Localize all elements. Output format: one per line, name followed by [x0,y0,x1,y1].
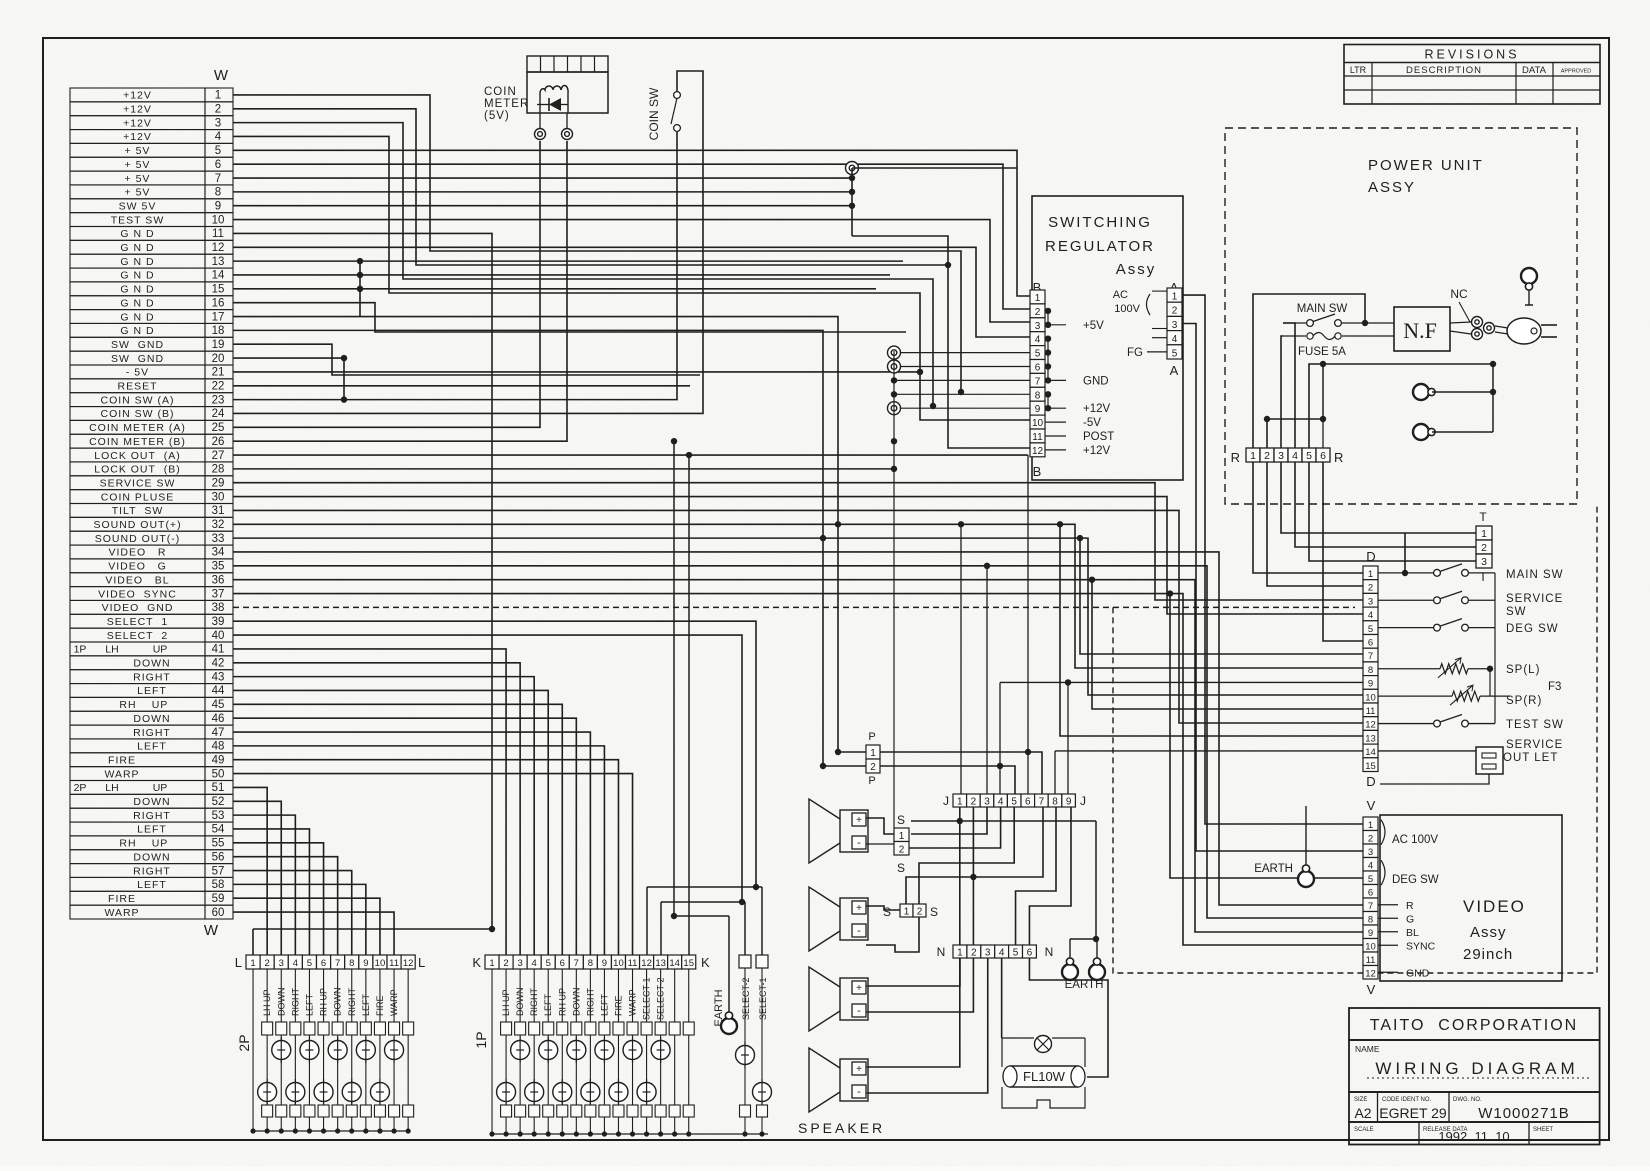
svg-text:1: 1 [957,948,963,959]
svg-text:W1000271B: W1000271B [1478,1105,1570,1122]
svg-text:36: 36 [212,574,225,586]
svg-text:20: 20 [212,353,225,365]
svg-text:1: 1 [1035,293,1041,304]
svg-text:GND: GND [1083,375,1109,387]
svg-text:6: 6 [321,958,326,969]
svg-text:D: D [1366,774,1375,789]
svg-text:2: 2 [899,845,905,856]
svg-text:EGRET 29: EGRET 29 [1379,1105,1447,1121]
svg-text:-: - [857,837,861,849]
svg-text:1: 1 [1172,292,1178,303]
svg-text:WARP: WARP [104,907,139,919]
svg-text:FIRE: FIRE [108,893,136,905]
svg-text:2: 2 [917,907,923,918]
svg-text:REGULATOR: REGULATOR [1045,238,1155,255]
svg-text:1: 1 [1368,820,1373,831]
svg-text:W: W [204,922,219,939]
svg-text:4: 4 [998,797,1004,808]
svg-text:LEFT: LEFT [304,993,314,1016]
svg-text:11: 11 [212,228,224,240]
svg-text:100V: 100V [1114,303,1140,315]
svg-text:2: 2 [503,958,508,969]
svg-text:6: 6 [1025,797,1031,808]
svg-text:46: 46 [212,713,225,725]
svg-text:9: 9 [1368,928,1373,939]
svg-text:2: 2 [870,762,876,773]
svg-text:+ 5V: + 5V [125,145,151,157]
svg-text:1: 1 [870,748,876,759]
svg-text:-: - [857,1005,861,1017]
svg-text:RESET: RESET [117,381,157,393]
svg-text:LEFT: LEFT [137,879,167,891]
svg-text:RH UP: RH UP [557,988,567,1016]
svg-text:R: R [1334,450,1343,465]
svg-text:5: 5 [307,958,312,969]
svg-text:POST: POST [1083,431,1114,443]
svg-text:58: 58 [212,879,225,891]
svg-text:12: 12 [1365,968,1376,979]
svg-text:3: 3 [215,117,221,129]
svg-text:41: 41 [212,644,225,656]
svg-text:8: 8 [588,958,593,969]
svg-text:DOWN: DOWN [133,796,170,808]
svg-text:2: 2 [1172,306,1178,317]
svg-text:1: 1 [899,831,905,842]
svg-text:10: 10 [212,214,225,226]
svg-text:DWG. NO.: DWG. NO. [1453,1097,1482,1103]
svg-text:K: K [472,955,481,970]
svg-text:FUSE 5A: FUSE 5A [1298,346,1346,358]
svg-text:N.F: N.F [1403,318,1437,343]
svg-text:5: 5 [1368,874,1373,885]
svg-text:L: L [418,955,425,970]
svg-text:B: B [1033,464,1042,479]
svg-text:TAITO CORPORATION: TAITO CORPORATION [1370,1017,1578,1034]
svg-text:A2: A2 [1354,1105,1371,1121]
svg-text:G N D: G N D [120,297,154,309]
svg-text:11: 11 [1366,706,1376,717]
svg-text:LEFT: LEFT [137,685,167,697]
svg-text:WARP: WARP [389,989,399,1016]
svg-text:50: 50 [212,768,225,780]
svg-text:RIGHT: RIGHT [133,671,171,683]
svg-text:FIRE: FIRE [613,995,623,1016]
svg-text:COIN SW (A): COIN SW (A) [101,394,175,406]
svg-text:8: 8 [1368,665,1373,676]
svg-text:3: 3 [1368,847,1373,858]
svg-text:SERVICE: SERVICE [1506,593,1563,605]
svg-text:SERVICE SW: SERVICE SW [100,477,176,489]
svg-text:V: V [1367,798,1376,813]
svg-text:19: 19 [212,339,225,351]
svg-text:55: 55 [212,838,225,850]
svg-text:6: 6 [1320,450,1326,462]
svg-text:COIN: COIN [484,86,517,98]
svg-text:G N D: G N D [120,311,154,323]
svg-text:14: 14 [1365,747,1376,758]
svg-text:S: S [930,905,938,919]
svg-text:3: 3 [279,958,284,969]
svg-text:DOWN: DOWN [133,713,170,725]
svg-text:AC 100V: AC 100V [1392,834,1438,846]
svg-text:6: 6 [1027,948,1033,959]
svg-text:27: 27 [212,450,225,462]
svg-text:3: 3 [517,958,522,969]
svg-text:OUT LET: OUT LET [1503,752,1558,764]
svg-text:+12V: +12V [123,131,152,143]
svg-text:4: 4 [293,958,298,969]
svg-text:1: 1 [215,90,221,102]
svg-text:DOWN: DOWN [276,988,286,1017]
svg-text:F3: F3 [1548,681,1561,693]
svg-text:GND: GND [1406,967,1430,979]
svg-text:VIDEO SYNC: VIDEO SYNC [98,588,177,600]
svg-text:1: 1 [489,958,494,969]
svg-text:10: 10 [613,958,624,969]
svg-text:12: 12 [641,958,652,969]
svg-text:14: 14 [212,270,225,282]
svg-text:RIGHT: RIGHT [133,727,171,739]
svg-text:10: 10 [1032,418,1044,429]
svg-text:37: 37 [212,588,225,600]
svg-text:LEFT: LEFT [137,741,167,753]
svg-text:26: 26 [212,436,225,448]
svg-text:J: J [1080,794,1086,808]
svg-text:5: 5 [546,958,551,969]
svg-text:5: 5 [1172,348,1178,359]
svg-text:7: 7 [1039,797,1045,808]
svg-text:7: 7 [1035,376,1041,387]
svg-text:SELECT 1: SELECT 1 [107,616,169,628]
svg-text:15: 15 [1365,761,1376,772]
svg-text:(5V): (5V) [484,110,510,122]
svg-text:LEFT: LEFT [361,993,371,1016]
svg-text:WARP: WARP [628,989,638,1016]
svg-text:48: 48 [212,741,225,753]
svg-text:G N D: G N D [120,325,154,337]
svg-text:8: 8 [349,958,354,969]
svg-text:6: 6 [1368,638,1373,649]
svg-text:SOUND OUT(+): SOUND OUT(+) [93,519,181,531]
svg-text:SW 5V: SW 5V [119,200,157,212]
svg-text:G N D: G N D [120,242,154,254]
svg-text:49: 49 [212,754,225,766]
svg-text:34: 34 [212,547,225,559]
svg-text:+12V: +12V [123,117,152,129]
svg-text:VIDEO G: VIDEO G [108,561,167,573]
svg-text:28: 28 [212,464,225,476]
svg-text:13: 13 [212,256,225,268]
svg-text:+ 5V: + 5V [125,187,151,199]
svg-text:+12V: +12V [1083,403,1111,415]
svg-text:G N D: G N D [120,284,154,296]
svg-text:54: 54 [212,824,225,836]
svg-text:RH: RH [119,699,136,711]
svg-text:DEG SW: DEG SW [1392,874,1439,886]
svg-text:SHEET: SHEET [1533,1127,1553,1133]
svg-text:52: 52 [212,796,225,808]
svg-text:10: 10 [375,958,386,969]
svg-text:A: A [1170,363,1179,378]
svg-text:5: 5 [1013,948,1019,959]
svg-text:8: 8 [1035,390,1041,401]
svg-text:N: N [937,945,946,959]
svg-text:3: 3 [1368,596,1373,607]
svg-text:LOCK OUT (A): LOCK OUT (A) [94,450,181,462]
svg-text:K: K [701,955,710,970]
svg-text:10: 10 [1365,941,1376,952]
svg-text:FG: FG [1127,347,1143,359]
svg-text:1: 1 [957,797,963,808]
svg-text:VIDEO GND: VIDEO GND [102,602,174,614]
svg-text:Assy: Assy [1470,924,1507,941]
svg-text:LH UP: LH UP [262,989,272,1016]
svg-text:FIRE: FIRE [108,754,136,766]
svg-text:R: R [1231,450,1240,465]
svg-text:S: S [897,813,905,827]
svg-text:-: - [857,925,861,937]
svg-text:21: 21 [212,367,225,379]
svg-text:LTR: LTR [1350,65,1367,75]
svg-text:-5V: -5V [1083,417,1101,429]
svg-text:32: 32 [212,519,225,531]
svg-text:UP: UP [152,699,169,711]
svg-text:13: 13 [1365,733,1376,744]
svg-text:2: 2 [971,948,977,959]
svg-text:4: 4 [999,948,1005,959]
svg-text:8: 8 [215,187,221,199]
svg-text:2: 2 [1264,450,1270,462]
svg-text:TILT SW: TILT SW [112,505,164,517]
svg-text:3: 3 [985,948,991,959]
svg-text:3: 3 [1278,450,1284,462]
svg-text:WIRING DIAGRAM: WIRING DIAGRAM [1375,1059,1578,1078]
svg-text:+: + [856,1064,862,1075]
svg-text:RIGHT: RIGHT [585,988,595,1017]
svg-text:3: 3 [1172,320,1178,331]
svg-text:DOWN: DOWN [571,988,581,1017]
svg-text:7: 7 [1368,901,1373,912]
svg-text:MAIN SW: MAIN SW [1297,303,1348,315]
svg-text:11: 11 [1366,955,1376,966]
svg-text:G N D: G N D [120,256,154,268]
svg-text:1: 1 [1481,528,1487,540]
svg-text:13: 13 [655,958,666,969]
svg-text:BL: BL [1406,927,1419,939]
svg-text:7: 7 [574,958,579,969]
svg-text:2P: 2P [236,1034,252,1051]
svg-text:10: 10 [1365,692,1376,703]
svg-text:2: 2 [1368,833,1373,844]
svg-text:G N D: G N D [120,270,154,282]
svg-text:SELECT-1: SELECT-1 [642,977,652,1020]
svg-text:8: 8 [1368,914,1373,925]
svg-text:9: 9 [1368,679,1373,690]
svg-text:4: 4 [1368,860,1373,871]
svg-text:SELECT-2: SELECT-2 [656,977,666,1020]
svg-text:6: 6 [215,159,221,171]
svg-text:8: 8 [1052,797,1058,808]
svg-text:56: 56 [212,851,225,863]
svg-text:9: 9 [1035,404,1041,415]
svg-text:SOUND OUT(-): SOUND OUT(-) [95,533,181,545]
svg-text:5: 5 [1035,349,1041,360]
svg-text:53: 53 [212,810,225,822]
svg-text:Assy: Assy [1116,261,1157,278]
svg-text:RIGHT: RIGHT [347,988,357,1017]
svg-text:LEFT: LEFT [543,993,553,1016]
svg-text:AC: AC [1113,289,1128,301]
svg-text:VIDEO BL: VIDEO BL [105,574,169,586]
svg-text:UP: UP [152,838,169,850]
svg-text:31: 31 [212,505,225,517]
svg-text:+ 5V: + 5V [125,173,151,185]
svg-text:REVISIONS: REVISIONS [1424,48,1519,62]
svg-text:29inch: 29inch [1463,946,1513,963]
svg-text:+ 5V: + 5V [125,159,151,171]
svg-text:5: 5 [215,145,221,157]
svg-text:SW: SW [1506,606,1527,618]
svg-text:30: 30 [212,491,225,503]
svg-text:5: 5 [1368,624,1373,635]
svg-text:12: 12 [403,958,414,969]
svg-text:+: + [856,983,862,994]
svg-text:SELECT 2: SELECT 2 [107,630,169,642]
svg-text:S: S [897,861,905,875]
svg-text:T: T [1479,510,1487,524]
svg-text:38: 38 [212,602,225,614]
svg-text:V: V [1367,982,1376,997]
svg-text:15: 15 [212,284,225,296]
svg-text:MAIN SW: MAIN SW [1506,569,1563,581]
svg-text:DATA: DATA [1522,65,1547,76]
svg-text:11: 11 [389,958,399,969]
svg-text:18: 18 [212,325,225,337]
svg-text:P: P [868,731,875,743]
svg-text:SYNC: SYNC [1406,940,1436,952]
svg-text:COIN SW: COIN SW [647,87,661,140]
svg-text:5: 5 [1306,450,1312,462]
svg-text:2P: 2P [74,782,87,794]
svg-text:+12V: +12V [123,104,152,116]
svg-text:COIN METER (A): COIN METER (A) [89,422,186,434]
svg-text:6: 6 [1368,887,1373,898]
svg-text:LH: LH [105,644,118,656]
svg-text:LEFT: LEFT [599,993,609,1016]
svg-text:4: 4 [1368,610,1373,621]
svg-text:2: 2 [1368,583,1373,594]
svg-text:3: 3 [984,797,990,808]
svg-text:40: 40 [212,630,225,642]
svg-text:+: + [856,815,862,826]
svg-text:NAME: NAME [1355,1044,1380,1054]
svg-text:2: 2 [215,104,221,116]
svg-text:45: 45 [212,699,225,711]
svg-text:24: 24 [212,408,225,420]
svg-text:COIN SW (B): COIN SW (B) [101,408,175,420]
svg-text:1: 1 [904,907,910,918]
svg-text:2: 2 [265,958,270,969]
svg-text:TEST SW: TEST SW [1506,719,1564,731]
svg-text:G: G [1406,913,1414,925]
svg-text:NC: NC [1450,287,1468,301]
svg-text:VIDEO R: VIDEO R [108,547,166,559]
svg-text:SW GND: SW GND [111,339,164,351]
svg-text:4: 4 [1035,335,1041,346]
svg-text:SP(R): SP(R) [1506,695,1542,707]
svg-text:+: + [856,903,862,914]
svg-text:59: 59 [212,893,225,905]
svg-text:DOWN: DOWN [515,988,525,1017]
svg-text:42: 42 [212,658,225,670]
svg-text:3: 3 [1035,321,1041,332]
svg-text:12: 12 [1032,446,1044,457]
svg-text:DOWN: DOWN [133,851,170,863]
svg-text:LH UP: LH UP [501,989,511,1016]
svg-text:DOWN: DOWN [133,658,170,670]
svg-text:SPEAKER: SPEAKER [798,1120,885,1136]
svg-text:44: 44 [212,685,225,697]
svg-text:16: 16 [212,297,225,309]
svg-text:SW GND: SW GND [111,353,164,365]
svg-text:1992. 11. 10: 1992. 11. 10 [1438,1129,1509,1144]
svg-text:EARTH: EARTH [1254,863,1293,875]
svg-text:COIN METER (B): COIN METER (B) [89,436,186,448]
svg-text:SP(L): SP(L) [1506,664,1540,676]
svg-text:RH UP: RH UP [319,988,329,1016]
svg-text:6: 6 [560,958,565,969]
svg-text:+5V: +5V [1083,320,1104,332]
svg-text:ASSY: ASSY [1368,179,1416,196]
svg-text:-: - [857,1086,861,1098]
svg-text:FIRE: FIRE [375,995,385,1016]
svg-text:22: 22 [212,381,225,393]
svg-text:UP: UP [153,782,168,794]
svg-text:T: T [1479,570,1487,584]
svg-text:G N D: G N D [120,228,154,240]
svg-text:12: 12 [1365,720,1376,731]
svg-text:7: 7 [335,958,340,969]
svg-text:SELECT-2: SELECT-2 [741,977,751,1020]
svg-text:METER: METER [484,98,529,110]
svg-text:L: L [235,955,242,970]
svg-text:3: 3 [1481,556,1487,568]
svg-text:APPROVED: APPROVED [1561,69,1592,75]
svg-text:11: 11 [628,958,638,969]
svg-text:RIGHT: RIGHT [290,988,300,1017]
svg-text:LOCK OUT (B): LOCK OUT (B) [94,464,181,476]
svg-text:7: 7 [215,173,221,185]
svg-text:1: 1 [1250,450,1256,462]
svg-text:2: 2 [971,797,977,808]
svg-text:LH: LH [105,782,118,794]
svg-text:COIN PLUSE: COIN PLUSE [101,491,175,503]
svg-text:15: 15 [683,958,694,969]
svg-text:47: 47 [212,727,225,739]
svg-text:2: 2 [1035,307,1041,318]
svg-text:RIGHT: RIGHT [133,865,171,877]
svg-text:25: 25 [212,422,225,434]
svg-text:29: 29 [212,477,225,489]
svg-text:9: 9 [1066,797,1072,808]
svg-text:SELECT-1: SELECT-1 [758,977,768,1020]
svg-text:N: N [1045,945,1054,959]
svg-text:RIGHT: RIGHT [133,810,171,822]
svg-text:23: 23 [212,394,225,406]
svg-text:4: 4 [1292,450,1298,462]
svg-text:UP: UP [153,644,168,656]
svg-text:6: 6 [1035,363,1041,374]
